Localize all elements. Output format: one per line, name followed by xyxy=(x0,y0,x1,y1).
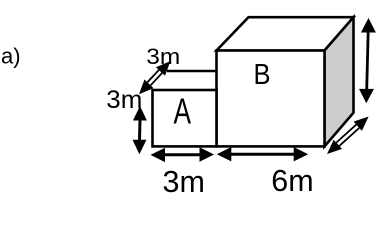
vertical height arrow right of B xyxy=(359,18,376,103)
box B top face xyxy=(217,17,354,50)
svg-text:3m: 3m xyxy=(163,165,205,199)
svg-text:a): a) xyxy=(1,44,21,69)
svg-text:6m: 6m xyxy=(271,164,313,198)
horizontal width arrow (3m) under A xyxy=(151,147,215,162)
svg-text:A: A xyxy=(174,91,192,132)
diagonal depth arrow bottom-right of B xyxy=(327,117,369,155)
diagonal depth arrow (3m) top-left xyxy=(139,61,171,94)
box B right face (shaded) xyxy=(325,17,354,146)
box A top-back edge xyxy=(167,70,217,73)
horizontal width arrow (6m) under B xyxy=(217,147,308,161)
vertical height arrow (3m) left of A xyxy=(133,106,147,154)
svg-text:3m: 3m xyxy=(146,44,180,69)
svg-text:B: B xyxy=(254,59,271,91)
box A front face xyxy=(153,90,217,146)
svg-text:3m: 3m xyxy=(106,86,142,114)
box B front face xyxy=(217,51,325,147)
